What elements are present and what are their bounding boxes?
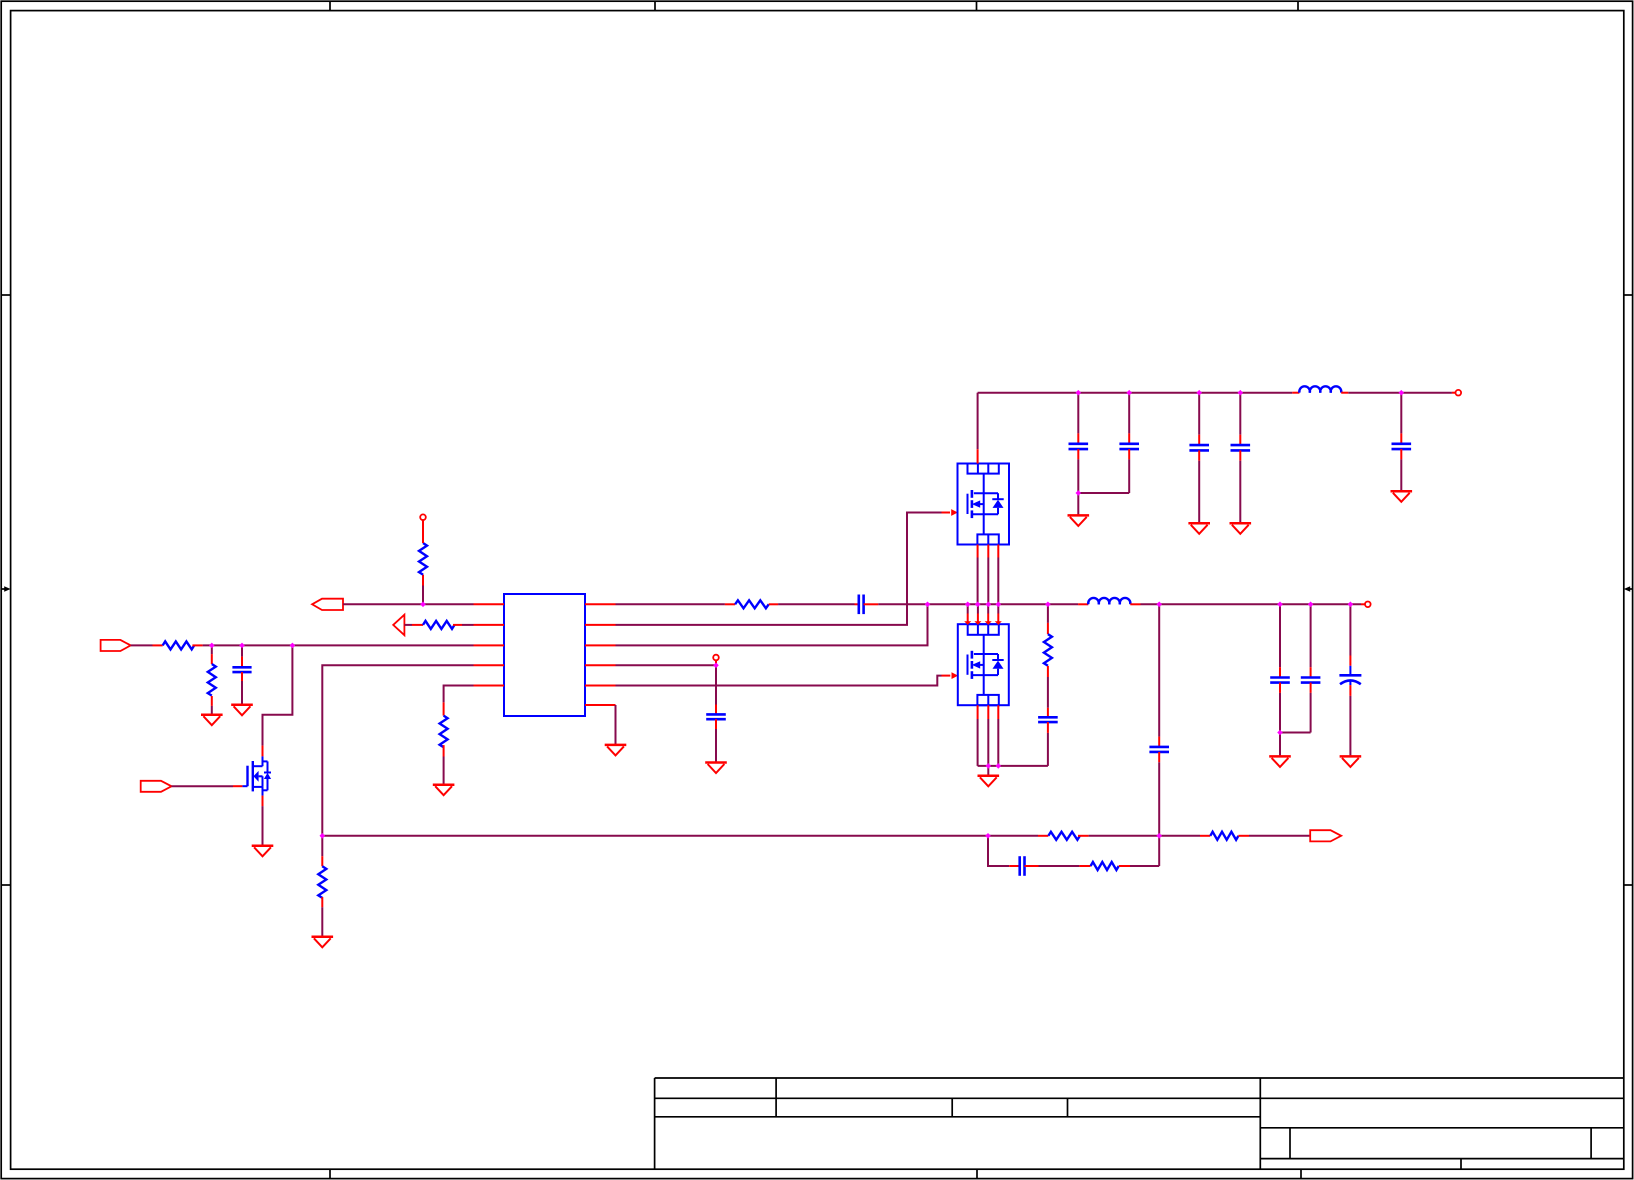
wire U1 gnd pin down xyxy=(615,705,617,745)
node top rail junction 2 xyxy=(1126,390,1132,396)
C7 bottom stub xyxy=(1310,683,1312,693)
border tick bottom 3 xyxy=(1300,1169,1302,1178)
VIN terminal stub xyxy=(1452,392,1456,394)
wire R7 to ground xyxy=(443,757,445,785)
Q3 MOSFET symbol xyxy=(968,635,1004,695)
wire C11 to ground xyxy=(1198,461,1200,524)
Q2 top pin tab xyxy=(968,464,999,474)
resistor R1 (pull-up) xyxy=(419,543,427,575)
wire C10 down xyxy=(1128,459,1130,493)
U1 pin 2 left stub xyxy=(474,624,505,626)
terminal TP3 circle xyxy=(1365,602,1371,608)
U1 pin 10 right stub xyxy=(585,603,616,605)
U1 pin 9 right stub xyxy=(585,624,616,626)
node E junction xyxy=(713,663,719,669)
R6 top stub xyxy=(321,856,323,866)
wire U1 pin6 to Q3 gate xyxy=(616,676,942,686)
ground GND7 xyxy=(705,763,727,774)
wire Q1 source to ground xyxy=(262,806,264,846)
wire VOUT2 rail xyxy=(1141,603,1362,605)
resistor R12 (compensation) xyxy=(1091,862,1119,870)
wire divider down to C5 xyxy=(1158,604,1160,736)
Q3 source pin 2 wire xyxy=(987,705,989,766)
capacitor C10 xyxy=(1119,444,1139,449)
wire filter cap down xyxy=(1400,393,1402,434)
capacitor C11 xyxy=(1189,445,1209,450)
capacitor C3 xyxy=(706,714,726,719)
node output cap junction 3 xyxy=(1348,602,1354,608)
capacitor C1 xyxy=(232,667,251,672)
title block right row line 2 xyxy=(1260,1158,1624,1160)
C6 top stub xyxy=(1279,667,1281,677)
R6 bottom stub xyxy=(321,897,323,907)
resistor R4 (series input) xyxy=(163,641,195,649)
C4 bottom stub xyxy=(1047,722,1049,733)
L2 right stub xyxy=(1341,392,1348,394)
Q3 source pin 3 wire xyxy=(997,705,999,766)
capacitor C9 xyxy=(1069,444,1089,449)
resistor R6 (FB lower divider) xyxy=(318,866,326,898)
node SW tab junction 4 xyxy=(996,602,1002,608)
C8 bottom stub xyxy=(1349,685,1351,696)
wire input cap common xyxy=(1078,492,1129,494)
wire node C down xyxy=(241,645,243,656)
node C junction xyxy=(239,643,245,649)
C2 right stub xyxy=(864,603,879,605)
ground GND13 xyxy=(1230,523,1252,534)
border tick bottom 1 xyxy=(329,1169,331,1178)
border tick top 4 xyxy=(1297,1,1299,10)
R10 right stub xyxy=(1078,835,1089,837)
Q2 source pin 2 wire xyxy=(987,545,989,605)
ground GND9 xyxy=(1269,756,1291,767)
Q3 source pin 1 wire xyxy=(977,705,979,766)
Q1 source stub xyxy=(262,796,264,807)
wire R12 to divider mid xyxy=(1130,865,1159,867)
node source rail junction 2 xyxy=(996,763,1002,769)
transistor Q1 (small MOSFET) xyxy=(242,756,271,795)
C9 top stub xyxy=(1077,433,1079,443)
wire U1 pin4 to feedback node xyxy=(322,665,473,836)
Q1 gate stub xyxy=(233,785,242,787)
Q3 drain stub arrow 2 xyxy=(974,604,981,625)
U1 pin 1 left stub xyxy=(474,603,505,605)
L1 left stub xyxy=(1078,603,1088,605)
wire C9 down xyxy=(1077,459,1079,493)
C7 top stub xyxy=(1310,667,1312,677)
wire input cap 3 down xyxy=(1198,393,1200,435)
resistor R9 (snubber) xyxy=(1044,634,1052,666)
wire input cap 4 down xyxy=(1239,393,1241,435)
wire L2 to terminal xyxy=(1348,392,1452,394)
node SW tab junction 2 xyxy=(975,602,981,608)
C3 bottom stub xyxy=(715,719,717,729)
wire P3 to Q1 gate xyxy=(172,785,234,787)
wire node D to Q1 drain xyxy=(263,645,293,745)
C1 top stub xyxy=(241,657,243,668)
node top rail junction 4 xyxy=(1238,390,1244,396)
C10 bottom stub xyxy=(1128,449,1130,459)
connector P1 (enable, pointing left) xyxy=(312,599,343,610)
ground GND8 xyxy=(978,776,1000,787)
title block left row line xyxy=(655,1116,1261,1118)
wire input cap 2 down xyxy=(1128,393,1130,434)
resistor R8 (boot) xyxy=(735,600,769,608)
R4 left stub xyxy=(153,644,163,646)
title block left divider 1 xyxy=(775,1078,777,1117)
C14 right stub xyxy=(1025,865,1039,867)
wire R8 to C2 xyxy=(778,603,854,605)
capacitor C14 (compensation) xyxy=(1020,856,1025,876)
border center arrow right xyxy=(1624,586,1633,592)
R7 bottom stub xyxy=(443,745,445,756)
wire commons to ground xyxy=(1279,733,1281,757)
node output cap junction 2 xyxy=(1308,602,1314,608)
wire input cap 1 down xyxy=(1077,393,1079,434)
connector P4 (FB out, pointing right) xyxy=(1310,830,1341,841)
node output cap junction 1 xyxy=(1277,602,1283,608)
Q3 gate stub arrow xyxy=(942,672,959,679)
R12 right stub xyxy=(1119,865,1130,867)
wire C13 to ground xyxy=(1400,459,1402,491)
title block outline xyxy=(655,1078,1624,1169)
VOUT2 terminal stub xyxy=(1361,603,1365,605)
L1 right stub xyxy=(1130,603,1140,605)
node SW junction xyxy=(925,602,931,608)
transistor Q2 (high-side MOSFET package) xyxy=(958,464,1010,545)
node SW snubber junction xyxy=(1045,602,1051,608)
node FB junction xyxy=(320,833,326,839)
Q2 MOSFET symbol xyxy=(968,474,1004,535)
capacitor C2 (boot) xyxy=(859,595,864,615)
capacitor C13 xyxy=(1392,444,1412,449)
wire U1 pin9 to Q2 gate xyxy=(616,513,942,625)
wire VIN top rail xyxy=(978,392,1293,394)
wire R10 to divider node xyxy=(1089,835,1200,837)
wire R11 to connector xyxy=(1249,835,1310,837)
Q3 drain stub arrow 4 xyxy=(995,604,1002,625)
wire VIN rail down to Q2 drain xyxy=(977,393,979,450)
capacitor C5 (feed-forward) xyxy=(1149,747,1169,752)
ground GND10 xyxy=(1340,756,1362,767)
node SW tab junction 3 xyxy=(986,602,992,608)
wire snubber down xyxy=(1047,604,1049,623)
port arrow (comp, pointing left) xyxy=(393,615,404,636)
title block right divider 1 xyxy=(1289,1128,1291,1159)
title block left divider 3 xyxy=(1067,1098,1069,1117)
border tick right 2 xyxy=(1624,884,1633,886)
resistor R3 xyxy=(423,621,454,629)
title block row line full xyxy=(655,1097,1624,1099)
R11 right stub xyxy=(1238,835,1249,837)
C1 bottom stub xyxy=(241,672,243,681)
R5 bottom stub xyxy=(211,696,213,706)
capacitor C4 (snubber) xyxy=(1038,717,1058,722)
border tick left 2 xyxy=(1,884,10,886)
border tick top 2 xyxy=(654,1,656,10)
op-amp controller IC U1 xyxy=(504,594,585,716)
ground GND6 xyxy=(605,745,627,756)
ground GND14 xyxy=(1391,491,1413,502)
capacitor C6 xyxy=(1270,678,1290,683)
border center arrow left xyxy=(1,586,10,592)
node cap commons junction xyxy=(1277,730,1283,736)
C14 left stub xyxy=(1009,865,1020,867)
wire FB rail xyxy=(322,835,1038,837)
Q2 bottom pin tab xyxy=(977,534,998,544)
wire output cap 3 down xyxy=(1349,604,1351,655)
wire node B down xyxy=(211,645,213,654)
U1 pin 4 left stub xyxy=(474,664,505,666)
Q2 drain stub xyxy=(977,449,979,463)
wire output cap 2 down xyxy=(1310,604,1312,667)
C13 top stub xyxy=(1400,433,1402,443)
wire C7 down xyxy=(1310,693,1312,733)
connector P2 (input, pointing right) xyxy=(101,640,131,651)
wire C5 down to FB branch xyxy=(1158,762,1160,866)
border tick top 3 xyxy=(976,1,978,10)
Q2 source pin 1 wire xyxy=(977,545,979,605)
wire U1 pin8 to SW node xyxy=(616,604,928,645)
R9 bottom stub xyxy=(1047,666,1049,677)
U1 pin 6 right stub xyxy=(585,685,616,687)
wire C8 to ground xyxy=(1349,696,1351,757)
R5 top stub xyxy=(211,654,213,664)
title block bottom strip divider xyxy=(1460,1159,1462,1170)
inductor L1 xyxy=(1088,598,1130,604)
wire U1 pin10 to R8 xyxy=(616,603,725,605)
wire source rail to ground xyxy=(987,766,989,776)
wire FB down to R6 xyxy=(321,836,323,856)
capacitor C7 xyxy=(1301,678,1321,683)
node top rail junction 1 xyxy=(1076,390,1082,396)
R8 left stub xyxy=(725,603,735,605)
ground GND2 xyxy=(231,705,253,716)
wire C2 to SW node xyxy=(878,603,927,605)
wire output cap 1 down xyxy=(1279,604,1281,667)
Q2 source pin 3 wire xyxy=(997,545,999,605)
ground GND12 xyxy=(1188,523,1210,534)
title block right row line 1 xyxy=(1260,1127,1624,1129)
R8 right stub xyxy=(769,603,778,605)
C12 top stub xyxy=(1239,435,1241,445)
inductor L2 xyxy=(1299,386,1341,392)
node FB divider junction xyxy=(985,833,991,839)
Q3 top pin tab xyxy=(968,624,999,635)
C6 bottom stub xyxy=(1279,683,1281,693)
R7 top stub xyxy=(443,702,445,715)
resistor R5 (to ground) xyxy=(208,664,216,696)
title block left divider 2 xyxy=(951,1098,953,1117)
node input cap common junction xyxy=(1076,490,1082,496)
node B junction xyxy=(209,643,215,649)
border tick bottom 2 xyxy=(976,1169,978,1178)
wire common to ground xyxy=(1077,493,1079,515)
node SW tab junction 1 xyxy=(965,602,971,608)
U1 ground pin stub xyxy=(585,704,616,706)
C5 top stub xyxy=(1158,737,1160,747)
Q1 drain stub xyxy=(262,746,264,757)
R3 right stub xyxy=(453,624,462,626)
border tick left 1 xyxy=(1,294,10,296)
U1 pin 7 right stub xyxy=(585,664,616,666)
C12 bottom stub xyxy=(1239,450,1241,460)
L2 left stub xyxy=(1292,392,1299,394)
wire cap commons xyxy=(1280,732,1311,734)
C11 top stub xyxy=(1198,435,1200,445)
wire C3 to ground xyxy=(715,729,717,763)
terminal TP1 circle xyxy=(420,514,426,520)
ground GND11 xyxy=(1068,515,1090,526)
wire C6 down xyxy=(1279,693,1281,733)
wire C14 to R12 xyxy=(1039,865,1080,867)
wire FB compensation branch xyxy=(988,836,1009,866)
C8 top stub xyxy=(1349,656,1351,666)
title block right divider 2 xyxy=(1590,1128,1592,1159)
wire SW rail xyxy=(928,603,1079,605)
wire node A up to R1 xyxy=(422,586,424,605)
capacitor C12 xyxy=(1231,445,1251,450)
node divider mid junction xyxy=(1156,833,1162,839)
R4 right stub xyxy=(192,644,202,646)
transistor Q3 (low-side MOSFET package) xyxy=(958,624,1009,705)
wire P1 to node A xyxy=(343,603,474,605)
connector P3 (gate drive, pointing right) xyxy=(141,781,172,792)
wire R3 to U1 pin2 xyxy=(462,624,474,626)
C13 bottom stub xyxy=(1400,449,1402,459)
R3 left stub xyxy=(412,624,423,626)
C5 bottom stub xyxy=(1158,752,1160,762)
R1 upper stub xyxy=(422,520,424,543)
node D junction xyxy=(290,643,296,649)
node VOUT2 divider junction xyxy=(1156,602,1162,608)
node top rail junction 5 xyxy=(1399,390,1405,396)
wire C1 to ground xyxy=(241,681,243,705)
terminal TP4 circle xyxy=(1456,390,1462,396)
wire U1 pin5 to R7 xyxy=(444,686,474,703)
U1 pin 5 left stub xyxy=(474,685,505,687)
C10 top stub xyxy=(1128,433,1130,443)
wire R6 to ground xyxy=(321,907,323,937)
border tick top 1 xyxy=(329,1,331,10)
Q2 gate stub arrow xyxy=(942,509,958,516)
Q3 drain stub arrow 1 xyxy=(964,604,971,625)
resistor R11 (FB series) xyxy=(1210,832,1238,840)
terminal TP2 circle xyxy=(713,655,719,661)
R10 left stub xyxy=(1038,835,1048,837)
Q3 drain stub arrow 3 xyxy=(985,604,992,625)
node top rail junction 3 xyxy=(1196,390,1202,396)
ground GND1 xyxy=(201,715,223,726)
wire node E down to C3 xyxy=(715,665,717,704)
C4 top stub xyxy=(1047,708,1049,718)
resistor R7 xyxy=(440,716,448,748)
R12 left stub xyxy=(1079,865,1090,867)
wire U1 pin7 to node E xyxy=(616,664,717,666)
wire C4 to source rail xyxy=(1047,733,1049,766)
wire R9 to C4 xyxy=(1047,677,1049,708)
ground GND3 xyxy=(252,846,274,857)
border tick right 1 xyxy=(1624,294,1633,296)
wire C12 to ground xyxy=(1239,461,1241,524)
node source rail junction 1 xyxy=(986,763,992,769)
C9 bottom stub xyxy=(1077,449,1079,459)
ground GND4 xyxy=(312,937,334,948)
R1 lower stub xyxy=(422,575,424,586)
Q3 bottom pin tab xyxy=(977,695,998,705)
node A junction xyxy=(420,602,426,608)
U1 pin 8 right stub xyxy=(585,644,616,646)
wire port to R3 xyxy=(404,624,412,626)
node E terminal stub xyxy=(715,660,717,665)
R11 left stub xyxy=(1200,835,1210,837)
C2 left stub xyxy=(855,603,859,605)
wire Q3 source rail xyxy=(978,765,1048,767)
wire input net to U1 pin3 xyxy=(203,644,474,646)
resistor R10 (FB upper divider) xyxy=(1048,832,1080,840)
wire R5 to ground xyxy=(211,706,213,715)
C11 bottom stub xyxy=(1198,450,1200,460)
R9 top stub xyxy=(1047,623,1049,634)
capacitor C8 (electrolytic) xyxy=(1339,666,1361,685)
C3 top stub xyxy=(715,705,717,715)
ground GND5 xyxy=(433,785,455,796)
wire P2 to R4 xyxy=(131,644,153,646)
U1 pin 3 left stub xyxy=(474,644,505,646)
